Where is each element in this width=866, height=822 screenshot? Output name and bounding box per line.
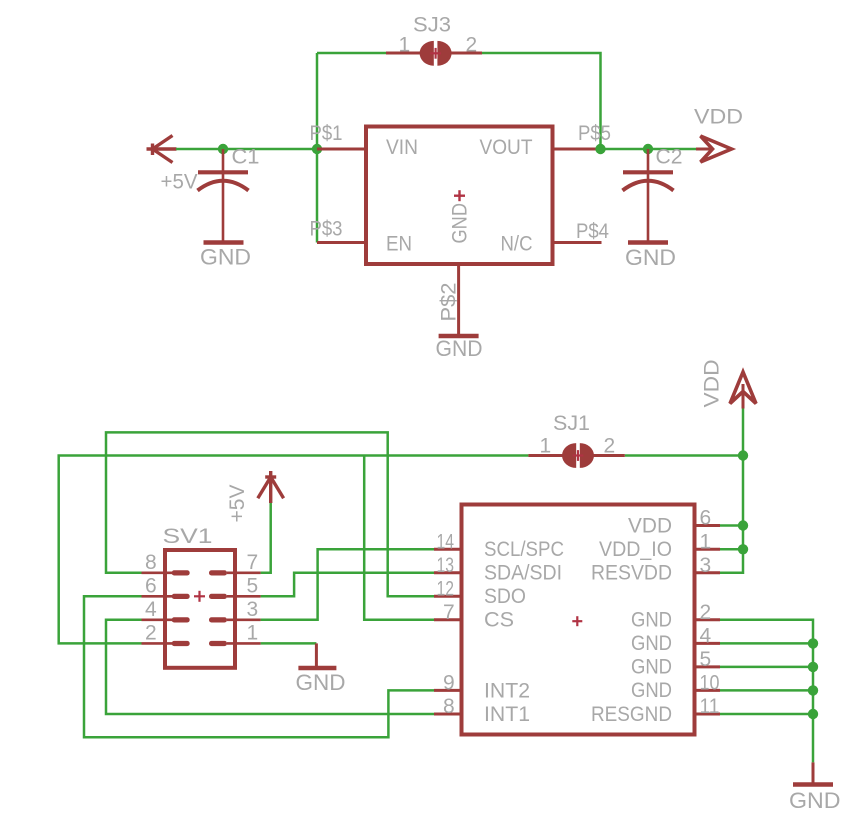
- wire net SCL: [261, 549, 434, 620]
- svg-text:C1: C1: [232, 146, 260, 169]
- svg-text:SV1: SV1: [163, 525, 213, 548]
- pin N/C stub: [553, 241, 602, 244]
- accelerometer U1 box: [462, 505, 695, 735]
- svg-text:INT2: INT2: [484, 680, 530, 703]
- svg-text:GND: GND: [789, 788, 841, 813]
- svg-text:P$3: P$3: [310, 218, 343, 241]
- svg-text:P$5: P$5: [578, 122, 611, 145]
- pin VOUT stub: [553, 148, 601, 151]
- svg-text:1: 1: [540, 435, 552, 458]
- svg-text:P$4: P$4: [576, 220, 609, 243]
- pin SJ3.2 stub: [451, 52, 483, 55]
- svg-text:7: 7: [443, 601, 455, 624]
- wire net SDO: [106, 432, 434, 596]
- ground GND (C1): [200, 243, 251, 270]
- svg-text:P$1: P$1: [310, 122, 343, 145]
- wire net GND (right column): [720, 620, 813, 763]
- svg-text:RESVDD: RESVDD: [591, 562, 672, 585]
- svg-text:4: 4: [145, 598, 157, 621]
- svg-text:GND: GND: [625, 245, 676, 270]
- svg-text:1: 1: [700, 530, 712, 553]
- wire net SDA: [261, 573, 434, 597]
- supply arrow VDD (right): [696, 136, 732, 162]
- junction C1 top: [218, 144, 228, 154]
- wire net +5V top: [176, 148, 317, 151]
- junction GND pin11: [808, 709, 818, 719]
- capacitor C2: [623, 149, 674, 243]
- svg-text:5: 5: [247, 574, 259, 597]
- svg-text:2: 2: [466, 34, 478, 57]
- svg-text:GND: GND: [631, 632, 672, 655]
- ground GND (C2): [625, 243, 676, 271]
- svg-text:14: 14: [437, 530, 455, 553]
- svg-text:SDA/SDI: SDA/SDI: [484, 562, 562, 585]
- wire VDD top: [601, 148, 697, 151]
- wire net GND (SV1 pin1): [261, 642, 317, 645]
- supply arrow +5V (bottom): [258, 471, 284, 503]
- wire net INT1: [106, 620, 434, 714]
- svg-text:1: 1: [247, 621, 259, 644]
- svg-text:9: 9: [443, 671, 455, 694]
- connector SV1 box: [165, 550, 235, 668]
- svg-text:CS: CS: [484, 609, 514, 632]
- SV1 pin stubs right: [227, 573, 261, 644]
- solder jumper SJ3: [420, 41, 452, 66]
- junction node P$5: [595, 144, 605, 154]
- junction VDD/SJ1: [738, 450, 748, 460]
- svg-text:VDD: VDD: [701, 360, 724, 408]
- svg-text:+5V: +5V: [161, 171, 198, 194]
- junction node P$1: [312, 144, 322, 154]
- ground GND (P$2): [436, 336, 483, 361]
- svg-text:GND: GND: [200, 245, 251, 270]
- ground GND (bottom right): [789, 762, 841, 813]
- svg-text:GND: GND: [631, 679, 672, 702]
- supply arrow VDD (bottom): [730, 372, 756, 409]
- pin SJ1.1 stub: [528, 454, 563, 457]
- svg-text:2: 2: [145, 621, 157, 644]
- capacitor C1: [198, 149, 249, 243]
- SV1 pin stubs left: [142, 573, 173, 644]
- svg-text:8: 8: [145, 551, 157, 574]
- svg-text:GND: GND: [296, 670, 346, 695]
- SV1 contact bars: [172, 570, 227, 646]
- svg-text:11: 11: [700, 695, 720, 718]
- svg-text:SCL/SPC: SCL/SPC: [484, 538, 564, 561]
- junction GND pin5: [808, 662, 818, 672]
- svg-text:3: 3: [247, 598, 259, 621]
- U1 pin stubs left: [434, 549, 462, 714]
- svg-text:VDD: VDD: [628, 515, 672, 538]
- svg-text:10: 10: [700, 671, 720, 694]
- junction GND pin4: [808, 638, 818, 648]
- svg-text:VOUT: VOUT: [480, 136, 533, 159]
- svg-text:GND: GND: [631, 609, 672, 632]
- svg-text:RESGND: RESGND: [591, 703, 672, 726]
- plus mark SV1: [194, 591, 205, 602]
- plus mark SJ1: [573, 450, 584, 461]
- svg-text:VDD_IO: VDD_IO: [599, 538, 672, 561]
- regulator U (top IC) box: [366, 127, 553, 265]
- svg-text:GND: GND: [436, 336, 483, 361]
- pin EN stub: [317, 241, 366, 244]
- svg-text:GND: GND: [631, 656, 672, 679]
- wire net +5V (SV1 pin7): [261, 503, 271, 573]
- svg-text:N/C: N/C: [501, 233, 533, 256]
- U1 pin stubs right: [695, 526, 721, 715]
- svg-text:6: 6: [700, 507, 712, 530]
- svg-text:EN: EN: [386, 233, 412, 256]
- wire SJ3 right: [482, 53, 601, 149]
- pin SJ3.1 stub: [386, 52, 421, 55]
- junction C2 top: [643, 144, 653, 154]
- svg-text:2: 2: [700, 601, 712, 624]
- junction GND pin10: [808, 685, 818, 695]
- plus mark GND+: [454, 190, 465, 201]
- junction VDD pin1: [738, 544, 748, 554]
- svg-text:2: 2: [604, 435, 616, 458]
- plus mark U1 center: [572, 616, 582, 626]
- svg-text:SDO: SDO: [484, 585, 526, 608]
- pin VIN stub: [317, 148, 366, 151]
- wire net VDD (right column): [625, 408, 743, 573]
- svg-text:INT1: INT1: [484, 703, 530, 726]
- wire net INT2: [84, 596, 434, 737]
- svg-text:6: 6: [145, 574, 157, 597]
- svg-text:SJ3: SJ3: [413, 14, 451, 37]
- pin P$2 wire: [457, 264, 460, 336]
- wire net CS: [59, 456, 529, 644]
- svg-text:VIN: VIN: [386, 136, 418, 159]
- svg-text:+5V: +5V: [226, 485, 249, 523]
- svg-text:8: 8: [443, 695, 455, 718]
- svg-text:13: 13: [437, 554, 455, 577]
- supply arrow +5V (left): [147, 136, 177, 163]
- svg-text:C2: C2: [656, 146, 683, 169]
- wire SJ3 left: [317, 52, 386, 55]
- plus mark SJ3: [430, 48, 441, 59]
- svg-text:3: 3: [700, 554, 712, 577]
- svg-text:SJ1: SJ1: [553, 412, 590, 435]
- svg-text:P$2: P$2: [438, 283, 461, 322]
- svg-text:VDD: VDD: [694, 106, 743, 129]
- svg-text:4: 4: [700, 624, 712, 647]
- svg-text:5: 5: [700, 648, 712, 671]
- svg-text:7: 7: [247, 551, 259, 574]
- wire vertical P$1-P$3 and up to SJ3: [316, 53, 319, 243]
- svg-text:1: 1: [399, 34, 411, 57]
- pin SJ1.2 stub: [593, 454, 625, 457]
- solder jumper SJ1: [562, 443, 594, 468]
- svg-text:GND: GND: [449, 203, 472, 244]
- svg-text:12: 12: [437, 577, 455, 600]
- ground GND (SV1 pin1): [296, 643, 346, 695]
- junction VDD pin6: [738, 520, 748, 530]
